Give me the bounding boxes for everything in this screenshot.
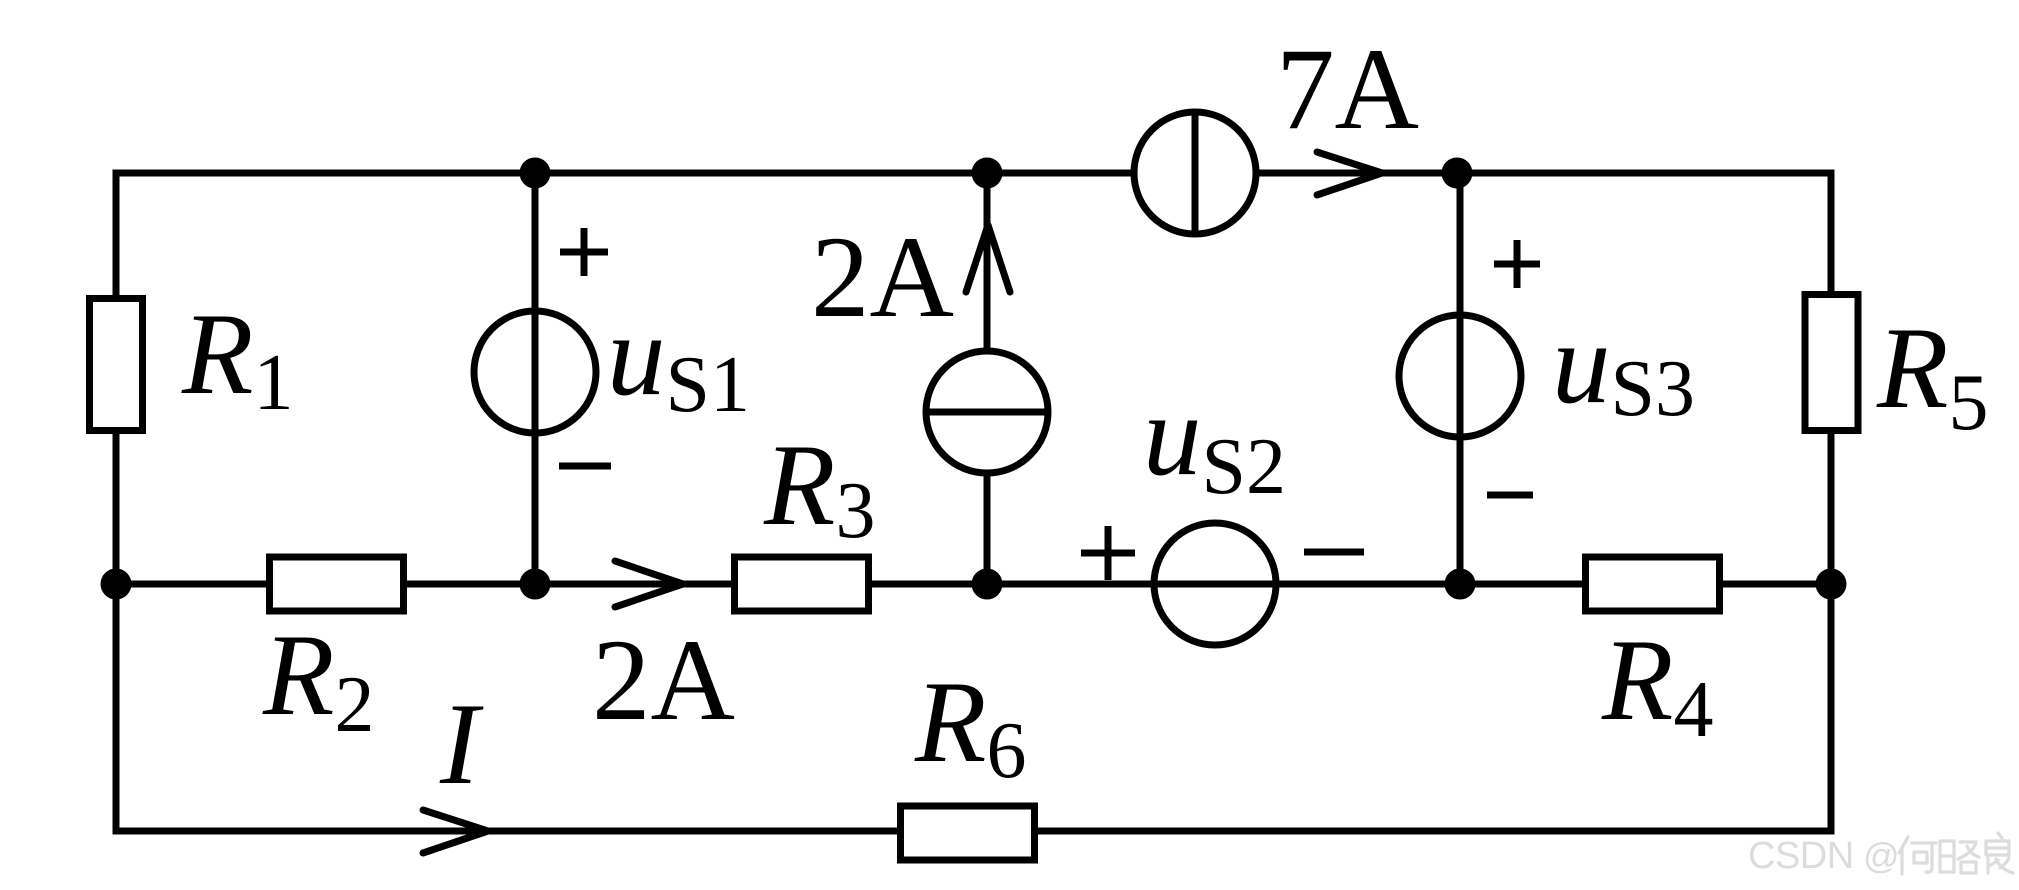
svg-text:2A: 2A: [811, 213, 954, 342]
svg-text:CSDN: CSDN: [1748, 835, 1854, 877]
svg-text:uS2: uS2: [1143, 371, 1286, 511]
svg-text:I: I: [439, 680, 484, 809]
svg-text:2A: 2A: [592, 616, 735, 745]
svg-text:R4: R4: [1601, 616, 1713, 754]
svg-text:R6: R6: [914, 658, 1026, 795]
svg-text:7A: 7A: [1276, 25, 1419, 154]
svg-text:@: @: [1863, 835, 1900, 876]
svg-text:R1: R1: [181, 290, 293, 427]
svg-text:R5: R5: [1876, 304, 1988, 447]
svg-text:R3: R3: [763, 421, 875, 555]
svg-text:uS1: uS1: [607, 291, 750, 429]
svg-text:uS3: uS3: [1552, 299, 1695, 433]
svg-text:R2: R2: [262, 611, 374, 749]
